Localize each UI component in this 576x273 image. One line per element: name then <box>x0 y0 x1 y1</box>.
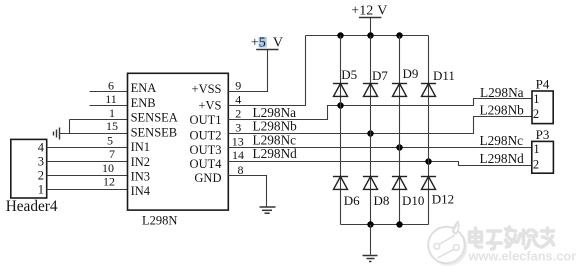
svg-text:D8: D8 <box>374 193 390 208</box>
node dot L298Nd-D11 <box>425 158 431 164</box>
node dot L298Nb-D7 <box>367 130 373 136</box>
svg-text:2: 2 <box>533 157 539 171</box>
svg-text:Header4: Header4 <box>6 198 58 215</box>
wire OUT1 pin2 <box>228 99 532 120</box>
wire header.4 to IN1 <box>47 147 128 149</box>
svg-text:12: 12 <box>103 175 115 189</box>
node dot bus-D5 <box>337 32 343 38</box>
svg-text:ENA: ENA <box>131 81 157 95</box>
svg-text:1: 1 <box>38 183 44 197</box>
op-amp U1 L298N box <box>128 73 229 210</box>
svg-text:IN1: IN1 <box>131 140 150 154</box>
svg-text:+5: +5 <box>251 36 266 51</box>
ground bottom <box>363 256 378 262</box>
svg-text:14: 14 <box>232 148 244 162</box>
wire diode column 4 <box>428 36 430 225</box>
wire bottom bus <box>341 224 429 226</box>
svg-text:2: 2 <box>38 169 44 183</box>
wire SENSEA <box>70 119 128 121</box>
node dot L298Na-D5 <box>337 102 343 108</box>
svg-text:10: 10 <box>102 161 114 175</box>
wire header.1 to IN4 <box>47 189 128 191</box>
wire OUT4 pin14 <box>228 162 532 166</box>
wire ENB stub <box>90 105 128 107</box>
svg-text:L298Nb: L298Nb <box>253 119 298 134</box>
node dot bottom-D6 col2 <box>367 221 373 227</box>
svg-text:+12: +12 <box>351 4 373 19</box>
svg-text:OUT4: OUT4 <box>190 157 223 171</box>
svg-text:SENSEB: SENSEB <box>131 125 178 139</box>
power +5V bar <box>256 49 278 51</box>
wire SENSEA tie down <box>69 120 71 134</box>
diode D10 <box>392 177 407 190</box>
svg-text:L298Nd: L298Nd <box>253 146 298 161</box>
svg-text:L298Nb: L298Nb <box>480 102 525 117</box>
svg-text:15: 15 <box>106 119 118 133</box>
svg-text:9: 9 <box>235 79 241 93</box>
svg-text:D6: D6 <box>344 193 360 208</box>
wire +12V top bus <box>306 35 429 37</box>
node dot bus-D7/+12V <box>367 32 373 38</box>
diode D7 <box>363 84 378 97</box>
svg-text:IN4: IN4 <box>131 184 151 198</box>
diode D8 <box>363 177 378 190</box>
svg-text:8: 8 <box>238 163 244 177</box>
wire diode column 2 <box>370 36 372 225</box>
svg-text:V: V <box>377 4 387 19</box>
svg-text:6: 6 <box>108 78 114 92</box>
svg-text:D9: D9 <box>403 66 419 81</box>
svg-text:1: 1 <box>109 106 115 120</box>
node dot bus-D9 <box>396 32 402 38</box>
svg-text:2: 2 <box>533 107 539 121</box>
svg-text:11: 11 <box>105 92 117 106</box>
wire ground stem bottom <box>370 225 372 255</box>
svg-text:D10: D10 <box>402 193 424 208</box>
svg-text:ENB: ENB <box>131 96 156 110</box>
watermark logo circle <box>428 222 466 265</box>
svg-text:GND: GND <box>194 171 221 185</box>
svg-text:L298Na: L298Na <box>480 85 524 100</box>
svg-text:4: 4 <box>38 141 45 155</box>
svg-text:D12: D12 <box>432 192 454 207</box>
svg-text:V: V <box>273 36 283 51</box>
diode D6 <box>333 177 348 190</box>
svg-text:OUT3: OUT3 <box>190 143 222 157</box>
svg-text:1: 1 <box>533 142 539 156</box>
svg-text:IN3: IN3 <box>131 170 150 184</box>
wire diode column 3 <box>399 36 401 225</box>
svg-text:3: 3 <box>235 121 241 135</box>
node dot L298Nc-D9 <box>396 144 402 150</box>
svg-text:www.elecfans.com: www.elecfans.com <box>468 249 576 264</box>
svg-text:P4: P4 <box>536 77 550 92</box>
power +12V symbol <box>370 18 372 36</box>
svg-text:D7: D7 <box>372 68 388 83</box>
svg-text:D11: D11 <box>433 68 455 83</box>
svg-text:3: 3 <box>38 155 44 169</box>
ground (sense) sideways <box>54 128 60 140</box>
svg-text:13: 13 <box>232 134 244 148</box>
node dot bottom-D10 col3 <box>396 221 402 227</box>
wire pin9 +VSS <box>228 50 267 92</box>
svg-text:1: 1 <box>533 92 539 106</box>
connector P3 box <box>532 141 554 173</box>
wire header.2 to IN3 <box>47 175 128 177</box>
svg-text:D5: D5 <box>341 67 357 82</box>
svg-text:OUT1: OUT1 <box>190 113 222 127</box>
wire diode column 1 <box>340 36 342 225</box>
connector P4 box <box>532 91 553 124</box>
diode D9 <box>392 84 407 97</box>
svg-text:IN2: IN2 <box>131 155 150 169</box>
diode D12 <box>421 177 436 190</box>
wire ENA stub <box>90 91 128 93</box>
svg-text:7: 7 <box>109 147 115 161</box>
power +5V highlight <box>259 37 267 48</box>
svg-text:5: 5 <box>107 133 113 147</box>
diode D5 <box>333 84 348 97</box>
svg-text:4: 4 <box>235 93 241 107</box>
svg-text:L298Nc: L298Nc <box>480 133 524 148</box>
svg-text:+VSS: +VSS <box>192 82 222 96</box>
connector P5 Header4 box <box>11 139 47 198</box>
diode D11 <box>421 84 436 97</box>
wire SENSEB to ground <box>60 133 128 135</box>
svg-text:SENSEA: SENSEA <box>131 111 178 125</box>
wire pin4 +VS riser <box>228 36 305 106</box>
wire header.3 to IN2 <box>47 161 128 163</box>
svg-text:OUT2: OUT2 <box>190 129 222 143</box>
svg-text:+VS: +VS <box>198 98 221 112</box>
watermark Chinese text (stylized strokes) <box>470 227 554 249</box>
ground pin8 <box>260 207 276 213</box>
svg-text:2: 2 <box>235 107 241 121</box>
wire OUT3 pin13 <box>228 147 532 149</box>
wire OUT2 pin3 <box>228 117 532 134</box>
svg-text:P3: P3 <box>536 127 550 142</box>
wire GND pin8 <box>228 176 266 207</box>
svg-text:L298N: L298N <box>142 214 177 228</box>
svg-text:L298Nd: L298Nd <box>480 151 525 166</box>
